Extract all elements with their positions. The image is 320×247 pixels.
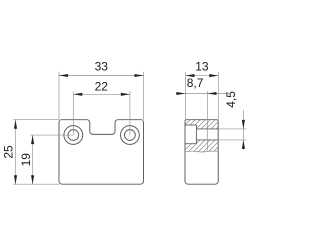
counterbore step [195, 125, 197, 144]
dimension 22 [73, 91, 130, 135]
hole right through circle [124, 130, 135, 141]
dimension 19 [30, 135, 73, 184]
hole right counterbore circle [120, 126, 139, 145]
through hole top wall [196, 128, 218, 130]
front view plate outline [59, 120, 144, 185]
dimension 25 [13, 120, 59, 185]
dimension 33 [59, 72, 144, 120]
svg-text:25: 25 [2, 145, 16, 159]
through hole bottom wall [196, 139, 218, 141]
counterbore top wall [185, 124, 196, 126]
side view section outline [185, 120, 218, 185]
dimension 4,5 [218, 110, 246, 150]
svg-text:4,5: 4,5 [224, 91, 238, 108]
svg-text:13: 13 [195, 60, 209, 74]
dimension 13 [186, 72, 219, 120]
hole left counterbore circle [64, 126, 83, 145]
svg-text:19: 19 [19, 153, 33, 167]
svg-text:22: 22 [95, 80, 109, 94]
hole left through circle [68, 130, 79, 141]
svg-text:33: 33 [95, 60, 109, 74]
side view hatch top region [185, 120, 218, 129]
svg-text:8,7: 8,7 [187, 76, 204, 90]
counterbore bottom wall [185, 143, 196, 145]
break wavy line [185, 150, 218, 153]
side view hatch bottom region [185, 140, 218, 152]
dimension 8,7 [176, 91, 230, 151]
